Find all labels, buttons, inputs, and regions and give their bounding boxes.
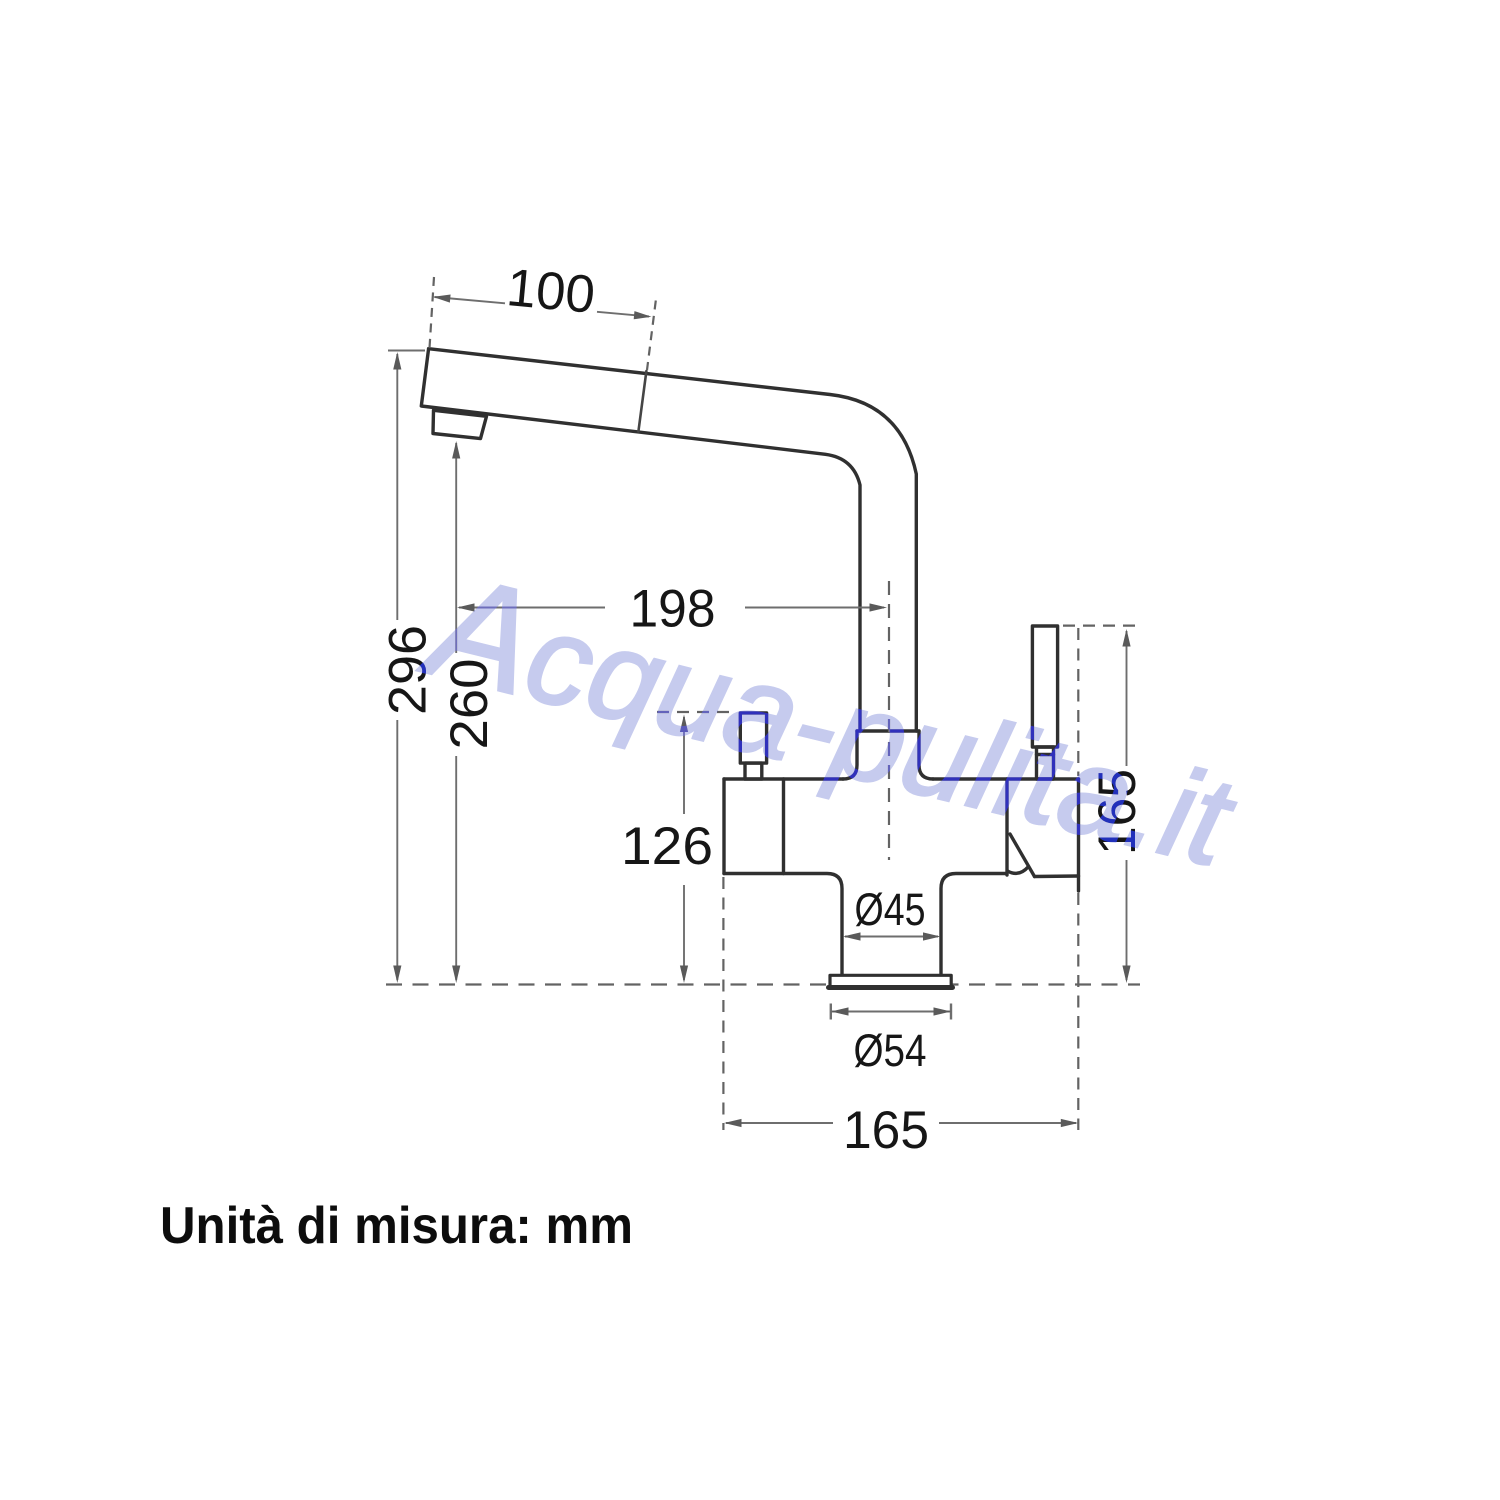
svg-text:Unità di misura: mm: Unità di misura: mm	[160, 1197, 633, 1255]
svg-text:Ø54: Ø54	[854, 1025, 927, 1076]
svg-text:Ø45: Ø45	[855, 884, 926, 935]
svg-text:126: 126	[621, 817, 713, 876]
svg-text:165: 165	[843, 1101, 929, 1160]
svg-text:100: 100	[504, 258, 597, 325]
